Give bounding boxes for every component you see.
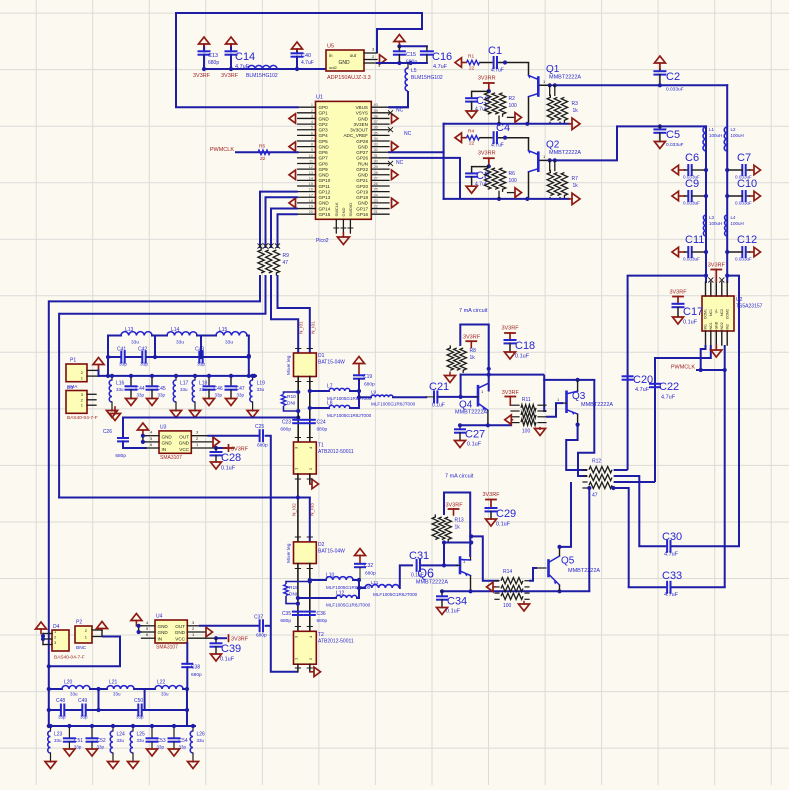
svg-text:C32: C32	[364, 563, 373, 569]
svg-text:C36: C36	[317, 611, 326, 617]
svg-text:C25: C25	[255, 424, 264, 430]
svg-text:C11: C11	[685, 234, 704, 246]
svg-text:MMBT2222A: MMBT2222A	[549, 150, 581, 156]
svg-text:BAT15-04W: BAT15-04W	[318, 360, 345, 366]
svg-text:MMBT2222A: MMBT2222A	[581, 402, 613, 408]
svg-text:GND: GND	[179, 441, 190, 446]
svg-text:1k: 1k	[573, 108, 579, 114]
svg-text:COM2: COM2	[725, 309, 729, 319]
svg-text:20: 20	[309, 210, 313, 214]
svg-text:L7: L7	[327, 384, 333, 390]
svg-text:14: 14	[309, 176, 313, 180]
svg-text:33u: 33u	[176, 340, 184, 346]
svg-text:100: 100	[503, 603, 512, 609]
svg-text:22: 22	[260, 156, 266, 162]
svg-text:33p: 33p	[97, 745, 105, 750]
svg-text:35: 35	[374, 131, 378, 135]
svg-text:1k: 1k	[573, 183, 579, 189]
svg-text:GP16: GP16	[356, 212, 368, 217]
svg-text:3V3RF: 3V3RF	[221, 73, 239, 79]
svg-text:MMBT2222A: MMBT2222A	[568, 568, 600, 574]
svg-text:D3: D3	[67, 385, 73, 391]
svg-text:GP26: GP26	[356, 156, 368, 161]
svg-text:R8: R8	[470, 348, 477, 354]
svg-text:R5: R5	[259, 144, 265, 150]
svg-text:C41: C41	[117, 347, 126, 353]
svg-text:C43: C43	[195, 347, 204, 353]
svg-text:GP10: GP10	[319, 178, 331, 183]
svg-text:1k: 1k	[455, 525, 461, 531]
svg-text:GP17: GP17	[356, 206, 368, 211]
svg-text:R14: R14	[503, 569, 512, 575]
svg-text:L3: L3	[709, 215, 715, 220]
svg-text:4.7uF: 4.7uF	[235, 64, 250, 70]
svg-text:L21: L21	[109, 680, 118, 686]
svg-text:R13: R13	[455, 518, 464, 524]
svg-text:29: 29	[374, 165, 378, 169]
svg-text:U4: U4	[156, 614, 163, 620]
svg-text:C31: C31	[409, 550, 429, 562]
svg-text:30: 30	[374, 160, 378, 164]
svg-text:ADC_VREF: ADC_VREF	[343, 133, 368, 138]
svg-text:R3: R3	[572, 101, 579, 107]
svg-text:NC: NC	[396, 160, 404, 166]
svg-text:BLM15HG102: BLM15HG102	[411, 75, 443, 81]
svg-text:GND: GND	[162, 441, 173, 446]
svg-text:C52: C52	[97, 738, 106, 744]
svg-text:R10: R10	[287, 394, 296, 400]
svg-text:T1: T1	[318, 443, 324, 449]
svg-text:0.1uF: 0.1uF	[221, 466, 236, 472]
svg-text:3V3RF: 3V3RF	[669, 290, 687, 296]
svg-text:3V3RR: 3V3RR	[478, 151, 496, 157]
svg-text:D2: D2	[318, 542, 325, 548]
svg-text:27: 27	[374, 176, 378, 180]
svg-text:33p: 33p	[58, 715, 66, 720]
svg-text:NO1: NO1	[709, 322, 713, 329]
svg-text:GP13: GP13	[319, 195, 331, 200]
svg-text:GP20: GP20	[356, 184, 368, 189]
svg-text:GP2: GP2	[319, 122, 329, 127]
svg-text:0.1uF: 0.1uF	[467, 442, 482, 448]
svg-text:34: 34	[374, 137, 378, 141]
svg-text:U1: U1	[316, 95, 323, 101]
svg-text:GP15: GP15	[319, 212, 331, 217]
svg-text:R1: R1	[468, 54, 474, 60]
svg-text:L13: L13	[125, 327, 134, 333]
svg-text:GND: GND	[319, 201, 330, 206]
svg-text:GP22: GP22	[356, 167, 368, 172]
svg-text:P2: P2	[76, 620, 82, 626]
svg-text:MLF1005G1R8JT000: MLF1005G1R8JT000	[327, 413, 372, 418]
svg-text:PWMCLK: PWMCLK	[210, 147, 234, 153]
svg-text:in: in	[329, 53, 333, 58]
svg-text:23: 23	[374, 199, 378, 203]
svg-text:0.1uF: 0.1uF	[515, 354, 530, 360]
svg-text:33p: 33p	[140, 362, 148, 368]
svg-text:3V3RF: 3V3RF	[445, 503, 463, 509]
svg-text:R4: R4	[468, 129, 474, 135]
svg-text:GP3: GP3	[319, 128, 329, 133]
svg-text:GND: GND	[358, 201, 369, 206]
svg-text:0.1uF: 0.1uF	[683, 320, 698, 326]
svg-text:0.033uF: 0.033uF	[683, 201, 700, 206]
svg-text:15: 15	[309, 182, 313, 186]
svg-text:33u: 33u	[180, 387, 188, 392]
svg-text:38: 38	[374, 114, 378, 118]
svg-text:C26: C26	[103, 429, 112, 435]
svg-text:BAS40-04-7-F: BAS40-04-7-F	[54, 655, 85, 661]
svg-text:N_I03: N_I03	[310, 503, 316, 516]
svg-text:680p: 680p	[191, 672, 202, 678]
svg-text:L4: L4	[731, 215, 737, 220]
svg-text:33: 33	[374, 143, 378, 147]
svg-text:Q5: Q5	[561, 556, 575, 567]
svg-text:U5: U5	[327, 44, 334, 50]
svg-text:33p: 33p	[157, 745, 165, 750]
svg-text:OUT: OUT	[175, 624, 185, 629]
svg-text:5: 5	[311, 126, 313, 130]
svg-text:100uH: 100uH	[731, 221, 744, 226]
svg-text:GP5: GP5	[319, 139, 329, 144]
svg-text:VCC: VCC	[175, 636, 185, 641]
svg-text:3V3OUT: 3V3OUT	[350, 128, 368, 133]
svg-text:GND: GND	[162, 435, 173, 440]
svg-text:GP0: GP0	[319, 105, 329, 110]
svg-text:NC1: NC1	[709, 309, 713, 316]
svg-text:0.033uF: 0.033uF	[735, 201, 752, 206]
svg-text:33u: 33u	[137, 738, 145, 743]
svg-text:IN: IN	[162, 447, 167, 452]
svg-text:GND: GND	[158, 630, 169, 635]
svg-text:100: 100	[522, 429, 531, 435]
svg-text:MLF1005G1R8JT000: MLF1005G1R8JT000	[326, 603, 371, 608]
svg-text:L5: L5	[411, 68, 417, 74]
svg-text:C24: C24	[317, 420, 326, 426]
svg-text:GP6: GP6	[319, 150, 329, 155]
svg-text:out: out	[350, 53, 357, 58]
svg-text:NO2: NO2	[720, 322, 724, 329]
svg-text:33u: 33u	[257, 387, 265, 392]
svg-text:N_I01: N_I01	[311, 321, 317, 334]
svg-text:BLM15HG102: BLM15HG102	[246, 73, 278, 79]
svg-text:Mixer leg: Mixer leg	[286, 543, 292, 563]
svg-text:680p: 680p	[208, 60, 219, 66]
svg-text:0.1uF: 0.1uF	[432, 403, 445, 409]
svg-text:GP28: GP28	[356, 139, 368, 144]
svg-text:33u: 33u	[225, 340, 233, 346]
svg-text:C10: C10	[737, 178, 757, 190]
svg-text:C46: C46	[214, 386, 223, 392]
svg-text:33u: 33u	[161, 692, 169, 697]
svg-text:36: 36	[374, 126, 378, 130]
svg-text:33p: 33p	[215, 393, 223, 398]
svg-text:4.7uF: 4.7uF	[635, 387, 650, 393]
svg-text:33p: 33p	[237, 393, 245, 398]
svg-text:0.033uF: 0.033uF	[683, 257, 700, 262]
svg-text:P1: P1	[70, 358, 76, 364]
svg-text:GND: GND	[158, 624, 169, 629]
svg-text:C39: C39	[221, 643, 241, 655]
svg-text:C15: C15	[406, 52, 416, 58]
svg-text:GP9: GP9	[319, 167, 329, 172]
svg-text:22: 22	[469, 66, 475, 72]
svg-text:0.033uF: 0.033uF	[666, 87, 684, 93]
svg-text:NC: NC	[404, 131, 412, 137]
svg-text:N_I01: N_I01	[299, 321, 305, 334]
svg-text:17: 17	[309, 193, 313, 197]
svg-text:L24: L24	[117, 732, 126, 738]
svg-text:C18: C18	[515, 340, 535, 352]
svg-text:GP8: GP8	[319, 161, 329, 166]
svg-text:3V3RF: 3V3RF	[708, 263, 726, 269]
svg-text:L14: L14	[171, 327, 180, 333]
svg-text:47: 47	[592, 493, 598, 499]
svg-text:7 mA circuit: 7 mA circuit	[459, 308, 488, 314]
svg-text:SWDIO: SWDIO	[348, 203, 353, 217]
svg-text:GND: GND	[175, 630, 186, 635]
svg-text:37: 37	[374, 120, 378, 124]
svg-text:C22: C22	[659, 381, 679, 393]
svg-text:25: 25	[374, 188, 378, 192]
svg-text:R9: R9	[283, 253, 290, 259]
svg-text:DNI: DNI	[287, 401, 295, 407]
svg-text:GP1: GP1	[319, 111, 329, 116]
svg-text:3V3RF: 3V3RF	[501, 326, 519, 332]
svg-text:VCC: VCC	[179, 447, 189, 452]
svg-text:SMA3107: SMA3107	[156, 645, 178, 651]
svg-text:L22: L22	[157, 680, 166, 686]
svg-text:R15: R15	[289, 585, 298, 591]
svg-text:33p: 33p	[80, 715, 88, 720]
svg-text:GP11: GP11	[319, 184, 331, 189]
svg-text:L9: L9	[371, 390, 377, 395]
svg-text:C14: C14	[235, 51, 255, 63]
svg-text:33p: 33p	[179, 745, 187, 750]
svg-text:MLF1005G1R8JT000: MLF1005G1R8JT000	[373, 592, 418, 597]
svg-text:U3: U3	[160, 424, 167, 430]
svg-text:4.7uF: 4.7uF	[301, 60, 314, 66]
svg-text:L19: L19	[257, 381, 266, 387]
svg-text:L23: L23	[54, 732, 63, 738]
svg-text:L10: L10	[326, 573, 335, 579]
svg-text:OUT: OUT	[179, 435, 189, 440]
svg-text:C19: C19	[363, 374, 372, 380]
svg-text:L1: L1	[709, 127, 715, 132]
svg-text:out2: out2	[329, 65, 338, 70]
svg-text:ADP150AUJZ-3.3: ADP150AUJZ-3.3	[327, 75, 371, 81]
svg-text:C2: C2	[666, 71, 680, 83]
svg-text:C44: C44	[136, 386, 145, 392]
svg-text:33p: 33p	[137, 393, 145, 398]
svg-text:N_I02: N_I02	[292, 503, 298, 516]
svg-text:22: 22	[469, 141, 475, 147]
svg-text:680p: 680p	[280, 618, 291, 624]
svg-text:680p: 680p	[317, 618, 328, 624]
svg-text:L8: L8	[327, 401, 333, 407]
svg-text:9: 9	[311, 148, 313, 152]
svg-text:24: 24	[374, 193, 378, 197]
svg-text:C45: C45	[157, 386, 166, 392]
svg-text:C7: C7	[737, 152, 751, 164]
svg-text:C53: C53	[157, 738, 166, 744]
svg-text:680p: 680p	[280, 427, 291, 433]
svg-text:33u: 33u	[116, 387, 124, 392]
svg-text:GND: GND	[319, 173, 330, 178]
svg-text:0.033uF: 0.033uF	[735, 257, 752, 262]
svg-text:C42: C42	[138, 347, 147, 353]
svg-text:C23: C23	[282, 420, 291, 426]
svg-text:L2: L2	[731, 127, 737, 132]
svg-text:T2: T2	[318, 632, 324, 638]
svg-text:10: 10	[309, 154, 313, 158]
svg-text:33p: 33p	[136, 715, 144, 720]
svg-text:33p: 33p	[158, 393, 166, 398]
svg-text:3V3RF: 3V3RF	[231, 637, 249, 643]
svg-text:GP7: GP7	[319, 156, 329, 161]
svg-text:GND: GND	[319, 116, 330, 121]
svg-text:BNC: BNC	[76, 645, 87, 651]
svg-text:C4: C4	[496, 122, 510, 134]
svg-text:680p: 680p	[256, 633, 267, 639]
svg-text:33u: 33u	[113, 692, 121, 697]
svg-text:GP12: GP12	[319, 189, 331, 194]
svg-text:C17: C17	[683, 306, 703, 318]
svg-text:32: 32	[374, 148, 378, 152]
svg-text:33p: 33p	[74, 745, 82, 750]
svg-text:680p: 680p	[317, 427, 328, 433]
svg-text:33u: 33u	[54, 738, 62, 743]
svg-text:4.7uF: 4.7uF	[491, 143, 504, 149]
svg-text:C1: C1	[488, 45, 502, 57]
svg-text:680p: 680p	[365, 571, 376, 577]
svg-text:C6: C6	[685, 152, 699, 164]
svg-text:4.7uF: 4.7uF	[433, 64, 448, 70]
svg-text:6: 6	[311, 131, 313, 135]
svg-text:MMBT2222A: MMBT2222A	[416, 580, 448, 586]
svg-text:MLF1005G1R8JT000: MLF1005G1R8JT000	[371, 402, 416, 407]
svg-text:C48: C48	[56, 698, 65, 704]
svg-text:NC: NC	[396, 108, 404, 114]
svg-text:16: 16	[309, 188, 313, 192]
svg-text:C21: C21	[429, 381, 449, 393]
svg-text:SMA3107: SMA3107	[160, 455, 182, 461]
svg-text:IN: IN	[158, 636, 163, 641]
svg-text:DNI: DNI	[289, 592, 297, 598]
svg-text:4.7uF: 4.7uF	[664, 552, 679, 558]
svg-text:18: 18	[309, 199, 313, 203]
svg-text:40: 40	[374, 103, 378, 107]
svg-text:26: 26	[374, 182, 378, 186]
svg-text:C54: C54	[179, 738, 188, 744]
svg-text:1: 1	[311, 103, 313, 107]
svg-text:100: 100	[509, 103, 518, 109]
svg-text:L12: L12	[336, 591, 345, 597]
svg-text:3V3RF: 3V3RF	[463, 335, 481, 341]
svg-text:R11: R11	[522, 397, 531, 403]
svg-text:3V3RR: 3V3RR	[478, 76, 496, 82]
svg-text:0.033uF: 0.033uF	[666, 142, 684, 148]
svg-text:GP21: GP21	[356, 178, 368, 183]
svg-text:0.1uF: 0.1uF	[446, 609, 461, 615]
svg-text:3V3RF: 3V3RF	[193, 73, 211, 79]
svg-text:ATB2012-50011: ATB2012-50011	[318, 449, 354, 455]
svg-text:100uH: 100uH	[731, 133, 744, 138]
svg-text:0.1uF: 0.1uF	[496, 522, 511, 528]
svg-text:1k: 1k	[470, 355, 476, 361]
svg-text:L26: L26	[197, 732, 206, 738]
svg-text:33u: 33u	[197, 738, 205, 743]
svg-text:GP27: GP27	[356, 150, 368, 155]
svg-text:R2: R2	[509, 96, 516, 102]
svg-text:4: 4	[311, 120, 313, 124]
svg-text:GND: GND	[319, 144, 330, 149]
svg-text:33u: 33u	[117, 738, 125, 743]
svg-text:C29: C29	[496, 508, 516, 520]
svg-text:C13: C13	[208, 53, 218, 59]
svg-text:12: 12	[309, 165, 313, 169]
svg-text:21: 21	[374, 210, 378, 214]
svg-text:C12: C12	[737, 234, 757, 246]
svg-text:33u: 33u	[131, 340, 139, 346]
svg-text:33p: 33p	[119, 362, 127, 368]
svg-text:R12: R12	[592, 459, 601, 465]
svg-text:VSYS: VSYS	[356, 111, 368, 116]
svg-text:680p: 680p	[115, 453, 126, 459]
svg-text:L15: L15	[219, 327, 228, 333]
svg-text:C35: C35	[282, 611, 291, 617]
svg-text:C40: C40	[301, 53, 311, 59]
svg-text:GND: GND	[358, 144, 369, 149]
svg-text:C38: C38	[191, 665, 200, 671]
svg-text:D1: D1	[318, 353, 325, 359]
svg-text:3: 3	[311, 114, 313, 118]
svg-text:V+: V+	[715, 309, 719, 313]
svg-text:100uH: 100uH	[709, 133, 722, 138]
svg-text:4.7uF: 4.7uF	[491, 68, 504, 74]
svg-text:7 mA circuit: 7 mA circuit	[445, 474, 474, 480]
svg-text:IN2: IN2	[725, 324, 729, 330]
svg-text:C5: C5	[666, 129, 680, 141]
svg-text:PWMCLK: PWMCLK	[671, 365, 695, 371]
svg-text:C28: C28	[221, 452, 241, 464]
svg-text:2: 2	[311, 109, 313, 113]
svg-text:Q1: Q1	[546, 64, 560, 75]
svg-text:GND: GND	[358, 116, 369, 121]
svg-text:MMBT2222A: MMBT2222A	[549, 75, 581, 81]
svg-text:GP18: GP18	[356, 195, 368, 200]
svg-text:BAS40-04-7-F: BAS40-04-7-F	[67, 415, 98, 421]
svg-text:GND: GND	[358, 173, 369, 178]
svg-text:C9: C9	[685, 178, 699, 190]
svg-text:C50: C50	[134, 698, 143, 704]
svg-text:GND: GND	[341, 208, 346, 217]
svg-text:4.7uF: 4.7uF	[664, 592, 679, 598]
svg-text:13: 13	[309, 171, 313, 175]
svg-text:19: 19	[309, 205, 313, 209]
svg-text:ATB2012-50011: ATB2012-50011	[318, 639, 354, 645]
svg-text:680p: 680p	[364, 382, 375, 388]
svg-text:C16: C16	[432, 51, 452, 63]
svg-text:COM1: COM1	[704, 309, 708, 319]
svg-text:R7: R7	[572, 176, 579, 182]
svg-text:39: 39	[374, 109, 378, 113]
svg-text:GND: GND	[715, 321, 719, 329]
svg-text:L11: L11	[371, 580, 379, 585]
svg-text:47: 47	[283, 260, 289, 266]
svg-text:C30: C30	[662, 531, 682, 543]
svg-text:NC2: NC2	[720, 309, 724, 316]
